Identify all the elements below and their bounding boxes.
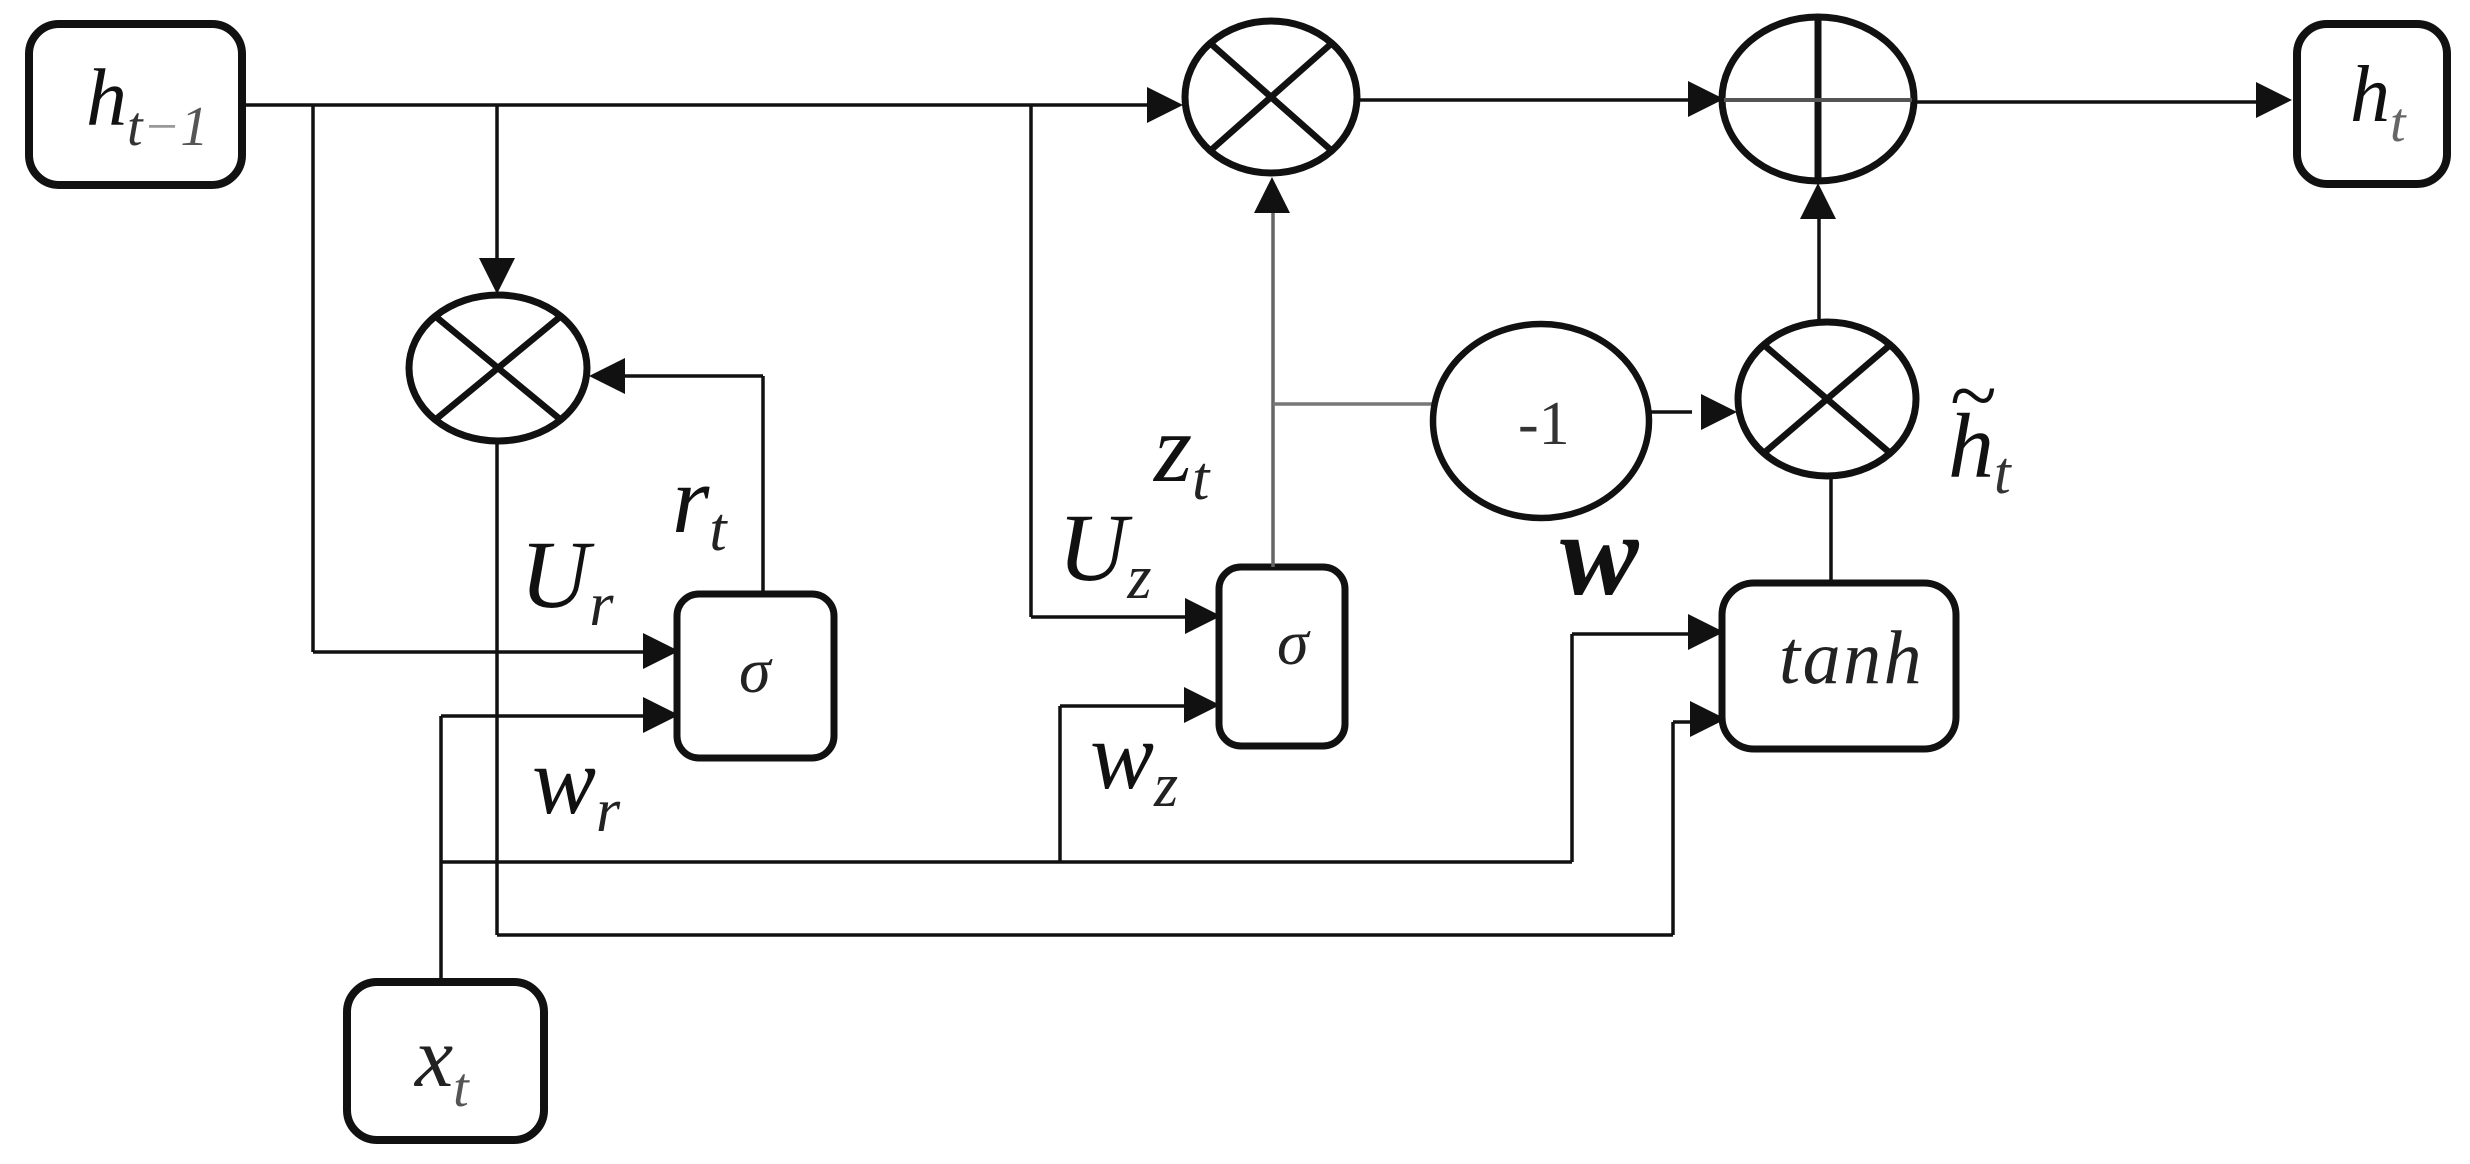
svg-text:wz: wz xyxy=(1090,702,1178,820)
node top multiply (z_t * h_{t-1}) xyxy=(1185,21,1357,173)
node plus (adder) xyxy=(1722,17,1914,181)
svg-text:w: w xyxy=(1560,489,1640,620)
wire x_t branch right to tanh (line A) xyxy=(441,614,1724,862)
svg-text:Uz: Uz xyxy=(1058,494,1151,612)
svg-text:σ: σ xyxy=(739,635,773,706)
svg-text:σ: σ xyxy=(1277,607,1311,678)
svg-text:ht: ht xyxy=(2350,51,2407,154)
wire h_{t-1} to top multiply xyxy=(246,87,1183,123)
wire h_{t-1} branch down to left multiply xyxy=(479,105,515,294)
label h-tilde_t xyxy=(1948,347,2012,506)
wire x_t up to sigma r (w_r path) xyxy=(441,697,679,978)
wire z_t branch to -1 node xyxy=(1273,402,1435,406)
block h_t xyxy=(2297,24,2447,184)
wire U_z branch from top wire down to sigma z xyxy=(1031,105,1221,634)
wire plus to h_t xyxy=(1914,82,2292,118)
svg-text:ht: ht xyxy=(1948,395,2012,506)
wire -1 to h-tilde multiply xyxy=(1649,394,1737,430)
svg-text:tanh: tanh xyxy=(1779,616,1924,700)
wire r_t from sigma r to left multiply xyxy=(589,358,763,594)
block sigma z xyxy=(1219,567,1345,746)
wire top multiply to plus xyxy=(1357,81,1724,117)
block sigma r xyxy=(677,594,834,758)
node -1 xyxy=(1433,324,1649,518)
svg-text:-1: -1 xyxy=(1518,390,1570,458)
wire h-tilde multiply up to plus xyxy=(1800,183,1836,322)
wire left multiply output down then right to tanh xyxy=(497,441,1726,935)
block x_t xyxy=(347,982,544,1140)
svg-text:xt: xt xyxy=(413,1009,470,1119)
block h_{t-1} xyxy=(29,24,242,185)
node h-tilde multiply xyxy=(1738,322,1916,476)
wire z_t from sigma z up to top multiply xyxy=(1254,177,1290,567)
svg-text:Ur: Ur xyxy=(520,521,614,639)
node left multiply (r_t * h_{t-1}) xyxy=(409,295,587,441)
svg-text:zt: zt xyxy=(1152,395,1211,513)
wire w_z branch up to sigma z xyxy=(1060,687,1220,862)
block tanh xyxy=(1722,583,1956,749)
wire tanh output up to h-tilde multiply xyxy=(1829,476,1833,583)
svg-text:rt: rt xyxy=(672,446,728,564)
svg-text:ht−1: ht−1 xyxy=(86,52,208,158)
wire h_{t-1} branch down to sigma r (U_r path) xyxy=(313,105,679,669)
svg-text:wr: wr xyxy=(532,727,621,845)
